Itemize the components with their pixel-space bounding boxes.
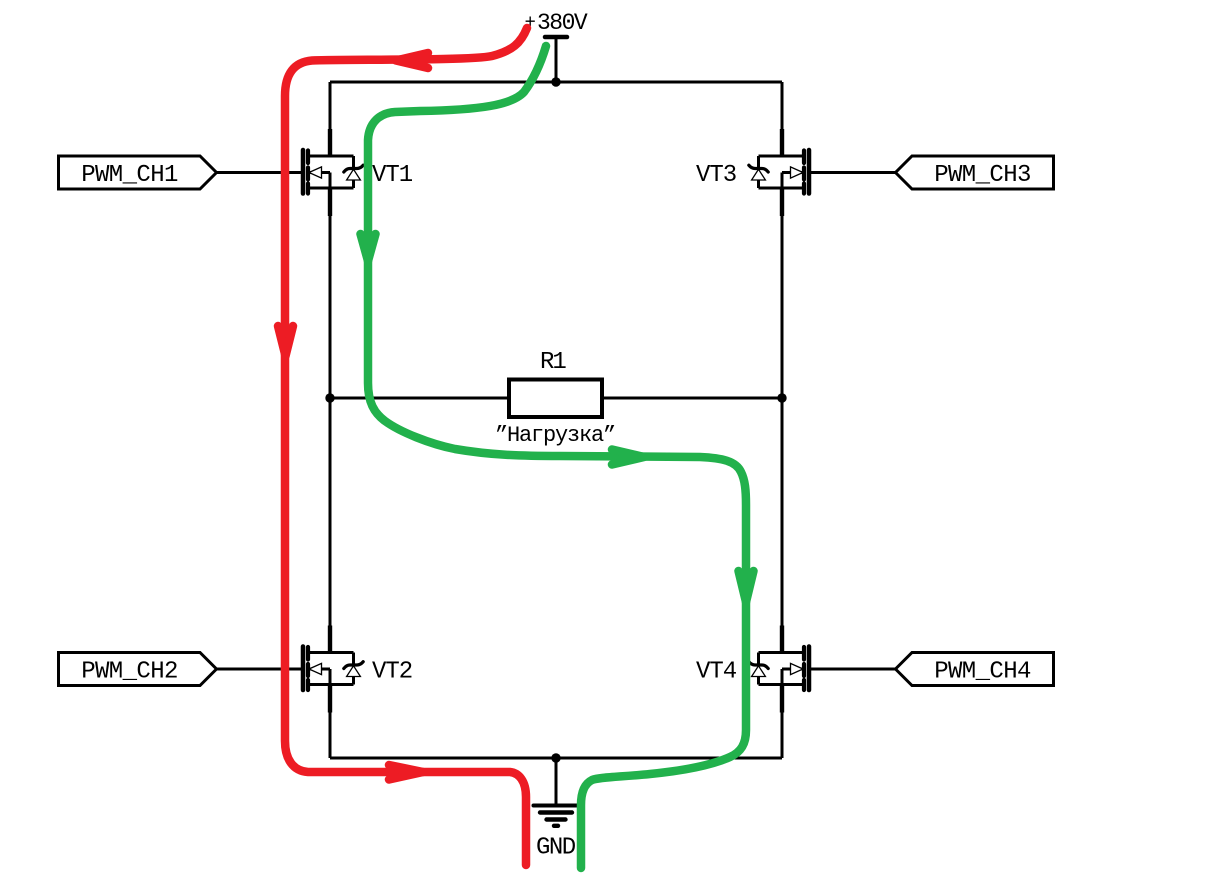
red arrowhead pointing right (bottom) [389, 765, 423, 780]
red arrowhead pointing down (left) [278, 326, 293, 356]
wire: GND stub [555, 758, 558, 804]
node: supply junction [551, 77, 560, 86]
wire: left rail lower (VT2 source to bottom rail) [329, 685, 332, 759]
svg-text:GND: GND [536, 835, 576, 862]
power symbol +380V bar [545, 35, 567, 40]
transistor VT4 [749, 626, 809, 713]
wire: top rail [330, 81, 782, 84]
green current path (diagonal conduction loop) [361, 46, 754, 868]
green arrowhead pointing down (upper left) [361, 234, 376, 261]
wire: bottom rail [330, 757, 782, 760]
svg-text:VT3: VT3 [696, 162, 736, 189]
svg-text:380V: 380V [537, 10, 588, 36]
wire: mid rail left (node to R1) [330, 397, 509, 400]
net flag PWM_CH3 [896, 156, 1054, 189]
wire: right rail middle (VT3 source to VT4 drain) [781, 188, 784, 653]
svg-text:PWM_CH3: PWM_CH3 [934, 162, 1031, 189]
svg-text:VT2: VT2 [372, 659, 412, 686]
green arrowhead pointing right (middle) [612, 450, 644, 465]
net flag PWM_CH2 [59, 653, 217, 686]
node: left mid junction [325, 393, 334, 402]
svg-text:VT4: VT4 [696, 659, 737, 686]
node: right mid junction [777, 393, 786, 402]
net flag PWM_CH4 [896, 653, 1054, 686]
svg-text:PWM_CH4: PWM_CH4 [934, 659, 1031, 686]
wire: gate wire PWM_CH2 to VT2 [216, 668, 302, 671]
wire: right rail upper (top rail to VT3 drain) [781, 82, 784, 156]
node: ground junction [551, 753, 560, 762]
resistor R1 [509, 380, 602, 418]
net flag PWM_CH1 [59, 156, 217, 189]
transistor VT2 [303, 626, 363, 713]
wire: gate wire PWM_CH3 to VT3 [810, 171, 896, 174]
svg-text:PWM_CH2: PWM_CH2 [81, 659, 178, 686]
svg-text:PWM_CH1: PWM_CH1 [81, 162, 178, 189]
wire: +380V stub [555, 37, 558, 82]
svg-text:”Нагрузка”: ”Нагрузка” [495, 423, 615, 448]
wire: gate wire PWM_CH1 to VT1 [216, 171, 302, 174]
svg-text:R1: R1 [540, 349, 566, 376]
wire: left rail middle (VT1 source to VT2 drain) [329, 188, 332, 653]
wire: gate wire PWM_CH4 to VT4 [810, 668, 896, 671]
green arrowhead pointing down (right) [739, 571, 754, 602]
wire: left rail upper (top rail to VT1 drain) [329, 82, 332, 156]
red current path (left half-bridge loop) [278, 28, 527, 865]
ground symbol [534, 806, 577, 826]
transistor VT1 [303, 129, 363, 216]
wire: mid rail right (R1 to node) [602, 397, 782, 400]
red arrowhead pointing left (top) [396, 53, 428, 68]
transistor VT3 [749, 129, 809, 216]
svg-text:VT1: VT1 [372, 162, 413, 189]
wire: right rail lower (VT4 source to bottom rail) [781, 685, 784, 759]
